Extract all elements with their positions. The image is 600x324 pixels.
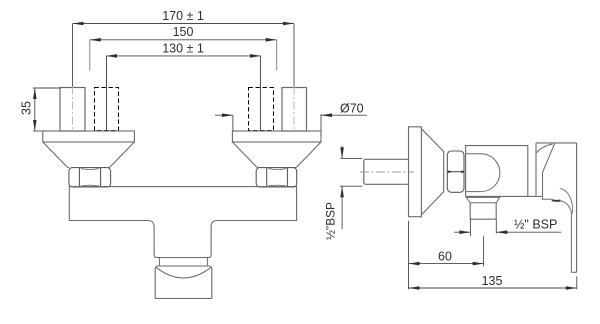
outlet collar bbox=[159, 258, 207, 266]
right hex nut bbox=[256, 168, 297, 187]
extension line 150 left bbox=[89, 40, 91, 71]
left hex nut bbox=[69, 168, 111, 187]
extension line 170 right bbox=[293, 24, 295, 87]
svg-text:60: 60 bbox=[438, 249, 452, 263]
side hex nut bbox=[447, 151, 464, 192]
inlet pipe right hidden (dashed) bbox=[249, 88, 274, 131]
handle blade inner edge bbox=[560, 201, 571, 273]
extension line handle right bbox=[576, 276, 578, 289]
dimension 170 line bbox=[73, 22, 295, 26]
dimension 35 bbox=[33, 88, 61, 131]
inlet pipe left solid bbox=[60, 88, 85, 132]
side inlet pipe bbox=[364, 159, 409, 184]
dimension 1/2 BSP vertical (inlet) bbox=[340, 146, 363, 229]
extension line wall bbox=[408, 221, 410, 290]
outlet cup bbox=[155, 266, 212, 299]
svg-text:150: 150 bbox=[173, 25, 194, 39]
spout tube bbox=[470, 203, 496, 219]
right wall flange plate bbox=[232, 131, 321, 142]
handle fillet curve bbox=[536, 144, 553, 153]
handle bottom cap bbox=[571, 271, 576, 273]
spout flange bbox=[466, 197, 500, 202]
dimension 1/2" BSP (outlet) bbox=[454, 220, 561, 237]
dimension 60 bbox=[409, 262, 484, 266]
side wall flange plate bbox=[409, 127, 422, 217]
extension line spout center bbox=[483, 236, 485, 266]
extension line 130 left / hidden pipe centerline bbox=[106, 56, 108, 130]
dimension 135 bbox=[409, 286, 577, 290]
handle top edge bbox=[536, 142, 577, 144]
valve body bbox=[466, 146, 542, 197]
side pipe centerline bbox=[360, 171, 414, 173]
svg-text:35: 35 bbox=[20, 101, 34, 115]
left flange cone bbox=[43, 142, 135, 168]
svg-text:170 ± 1: 170 ± 1 bbox=[162, 9, 204, 23]
dimension Ø70 bbox=[215, 113, 367, 130]
extension line 150 right bbox=[276, 40, 278, 71]
svg-text:135: 135 bbox=[482, 274, 503, 288]
left wall flange plate bbox=[43, 131, 135, 142]
extension line 130 right / hidden pipe centerline bbox=[260, 56, 262, 130]
extension line 170 left bbox=[72, 24, 74, 87]
centerline left solid pipe bbox=[72, 87, 74, 131]
handle grip bottom edge bbox=[542, 198, 553, 200]
svg-text:Ø70: Ø70 bbox=[340, 102, 364, 116]
handle wedge diagonal bbox=[543, 143, 555, 199]
handle neck upper curve bbox=[560, 188, 573, 213]
dimension 150 line bbox=[90, 38, 277, 42]
cartridge dome bbox=[466, 154, 500, 192]
svg-text:½"BSP: ½"BSP bbox=[324, 202, 338, 240]
side flange cone bbox=[422, 129, 444, 215]
svg-text:½" BSP: ½" BSP bbox=[514, 218, 557, 232]
inlet pipe right solid bbox=[282, 88, 307, 132]
dimension 130 line bbox=[106, 54, 261, 58]
inlet pipe left hidden (dashed) bbox=[95, 88, 119, 131]
centerline right solid pipe bbox=[293, 87, 295, 131]
mixer body bar with center drop bbox=[69, 187, 296, 258]
handle right edge bbox=[576, 143, 578, 272]
handle underside thick dash bbox=[552, 199, 561, 202]
right flange cone bbox=[232, 142, 321, 168]
svg-text:130 ± 1: 130 ± 1 bbox=[162, 41, 204, 55]
outlet cup arc bbox=[156, 267, 211, 278]
handle skirt bbox=[535, 143, 537, 196]
